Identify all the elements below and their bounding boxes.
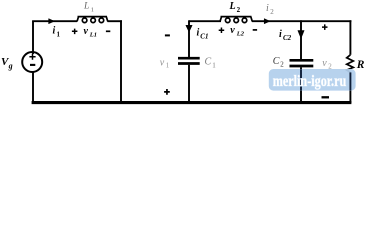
wire top left, right of L1 — [108, 20, 123, 22]
inductor L1 — [77, 17, 108, 23]
label vL2 — [230, 25, 244, 38]
wire left loop right side — [120, 20, 122, 103]
svg-text:L: L — [229, 1, 236, 12]
svg-text:i: i — [279, 29, 282, 40]
svg-text:2: 2 — [270, 8, 274, 16]
svg-text:C1: C1 — [200, 33, 208, 41]
svg-text:C: C — [273, 56, 280, 67]
svg-text:1: 1 — [57, 31, 61, 39]
capacitor C2 — [290, 60, 314, 66]
label minus of vL2 — [253, 29, 257, 31]
svg-text:g: g — [8, 62, 13, 71]
label iC1 — [197, 28, 209, 41]
capacitor C1 — [178, 58, 200, 63]
svg-text:i: i — [197, 28, 200, 39]
label vL1 — [84, 26, 98, 39]
label L2 — [229, 1, 241, 14]
label L1 — [83, 2, 94, 14]
svg-text:L: L — [83, 2, 89, 12]
svg-text:merlin-igor.ru: merlin-igor.ru — [273, 74, 347, 91]
wire C2 branch bottom — [300, 67, 302, 103]
label minus of vL1 — [106, 30, 110, 32]
svg-text:L2: L2 — [236, 31, 245, 38]
label i1 — [53, 26, 61, 39]
label plus of vL1 — [72, 29, 78, 34]
label iC2 — [279, 29, 292, 42]
label plus of v2 — [322, 24, 328, 30]
svg-text:R: R — [356, 59, 365, 71]
label i2 — [266, 3, 274, 16]
current arrow iC1 — [186, 25, 192, 32]
label Vg — [1, 56, 13, 71]
wire top left — [32, 20, 77, 22]
current arrow iC2 — [298, 31, 304, 39]
svg-text:v: v — [230, 25, 235, 36]
label minus of v1 — [165, 34, 170, 36]
svg-text:1: 1 — [212, 62, 216, 70]
watermark merlin-igor.ru — [269, 69, 356, 91]
wire Vg to bottom wire — [32, 73, 34, 104]
wire C1 branch bottom — [188, 65, 190, 103]
wire top middle, L2 to right corner — [252, 20, 351, 22]
svg-text:i: i — [53, 26, 56, 37]
svg-text:1: 1 — [166, 62, 170, 70]
svg-text:v: v — [84, 26, 89, 37]
label v2 — [322, 58, 332, 70]
inductor L2 — [220, 17, 252, 23]
resistor R — [347, 55, 354, 73]
label plus of vL2 — [219, 28, 225, 34]
wire right side bottom — [349, 72, 351, 103]
svg-text:v: v — [160, 57, 165, 68]
svg-text:2: 2 — [237, 6, 241, 14]
wire top middle from node C1 to L2 — [189, 20, 221, 22]
svg-text:2: 2 — [280, 61, 284, 69]
svg-text:1: 1 — [91, 7, 94, 14]
wire right side top — [349, 20, 351, 55]
label C2 — [273, 56, 285, 69]
svg-text:i: i — [266, 3, 269, 14]
wire C1 branch top — [188, 20, 190, 57]
label v1 — [160, 57, 170, 69]
wire Vg to top wire — [32, 21, 34, 54]
label plus of v1 — [164, 89, 170, 95]
wire C2 branch top — [300, 20, 302, 60]
svg-text:v: v — [322, 58, 327, 69]
label minus of v2 — [322, 96, 330, 98]
svg-text:C2: C2 — [283, 34, 292, 42]
label C1 — [205, 57, 217, 70]
svg-text:L1: L1 — [89, 32, 97, 39]
voltage source Vg — [22, 52, 42, 72]
current arrow i1 — [49, 19, 55, 24]
wire bottom — [32, 101, 352, 104]
current arrow i2 — [264, 19, 270, 24]
svg-text:C: C — [205, 57, 212, 68]
